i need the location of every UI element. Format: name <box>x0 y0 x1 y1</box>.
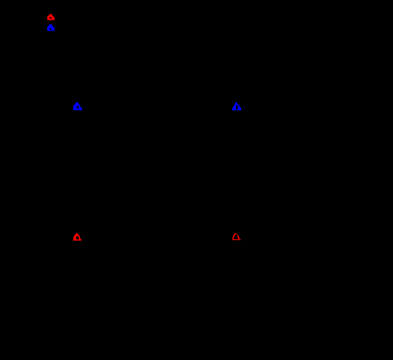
blue A-tent icon, grid top-right <box>232 102 242 111</box>
red bell-tent icon, grid bottom-left <box>73 233 83 242</box>
red tent icon top-left (upper of stacked pair) <box>47 14 56 22</box>
blue bell-tent icon, grid top-left <box>73 102 83 111</box>
blue tent icon top-left (lower of stacked pair) <box>47 24 56 32</box>
red outlined tent icon, grid bottom-right <box>232 233 242 242</box>
